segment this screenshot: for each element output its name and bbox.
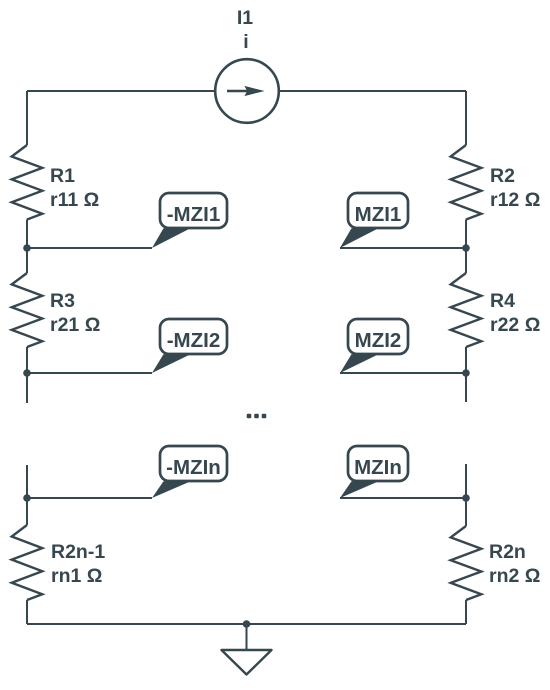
svg-text:r11 Ω: r11 Ω [50, 189, 99, 211]
svg-text:r21 Ω: r21 Ω [50, 314, 100, 336]
svg-text:R2n-1: R2n-1 [51, 541, 105, 563]
svg-text:MZI1: MZI1 [355, 203, 402, 226]
svg-text:I1: I1 [237, 7, 253, 29]
svg-text:r12 Ω: r12 Ω [490, 189, 540, 211]
svg-text:r22 Ω: r22 Ω [490, 314, 540, 336]
svg-text:i: i [243, 31, 248, 53]
svg-text:MZIn: MZIn [354, 456, 402, 479]
svg-text:R2n: R2n [489, 541, 526, 563]
svg-text:rn1 Ω: rn1 Ω [51, 565, 102, 587]
svg-text:R3: R3 [50, 290, 75, 312]
svg-text:MZI2: MZI2 [355, 329, 402, 352]
svg-text:R2: R2 [490, 165, 515, 187]
svg-text:rn2 Ω: rn2 Ω [489, 565, 540, 587]
svg-text:-MZI2: -MZI2 [167, 329, 221, 352]
svg-text:-MZI1: -MZI1 [167, 203, 221, 226]
svg-text:R1: R1 [50, 165, 75, 187]
svg-text:-MZIn: -MZIn [166, 456, 221, 479]
svg-text:R4: R4 [490, 290, 515, 312]
